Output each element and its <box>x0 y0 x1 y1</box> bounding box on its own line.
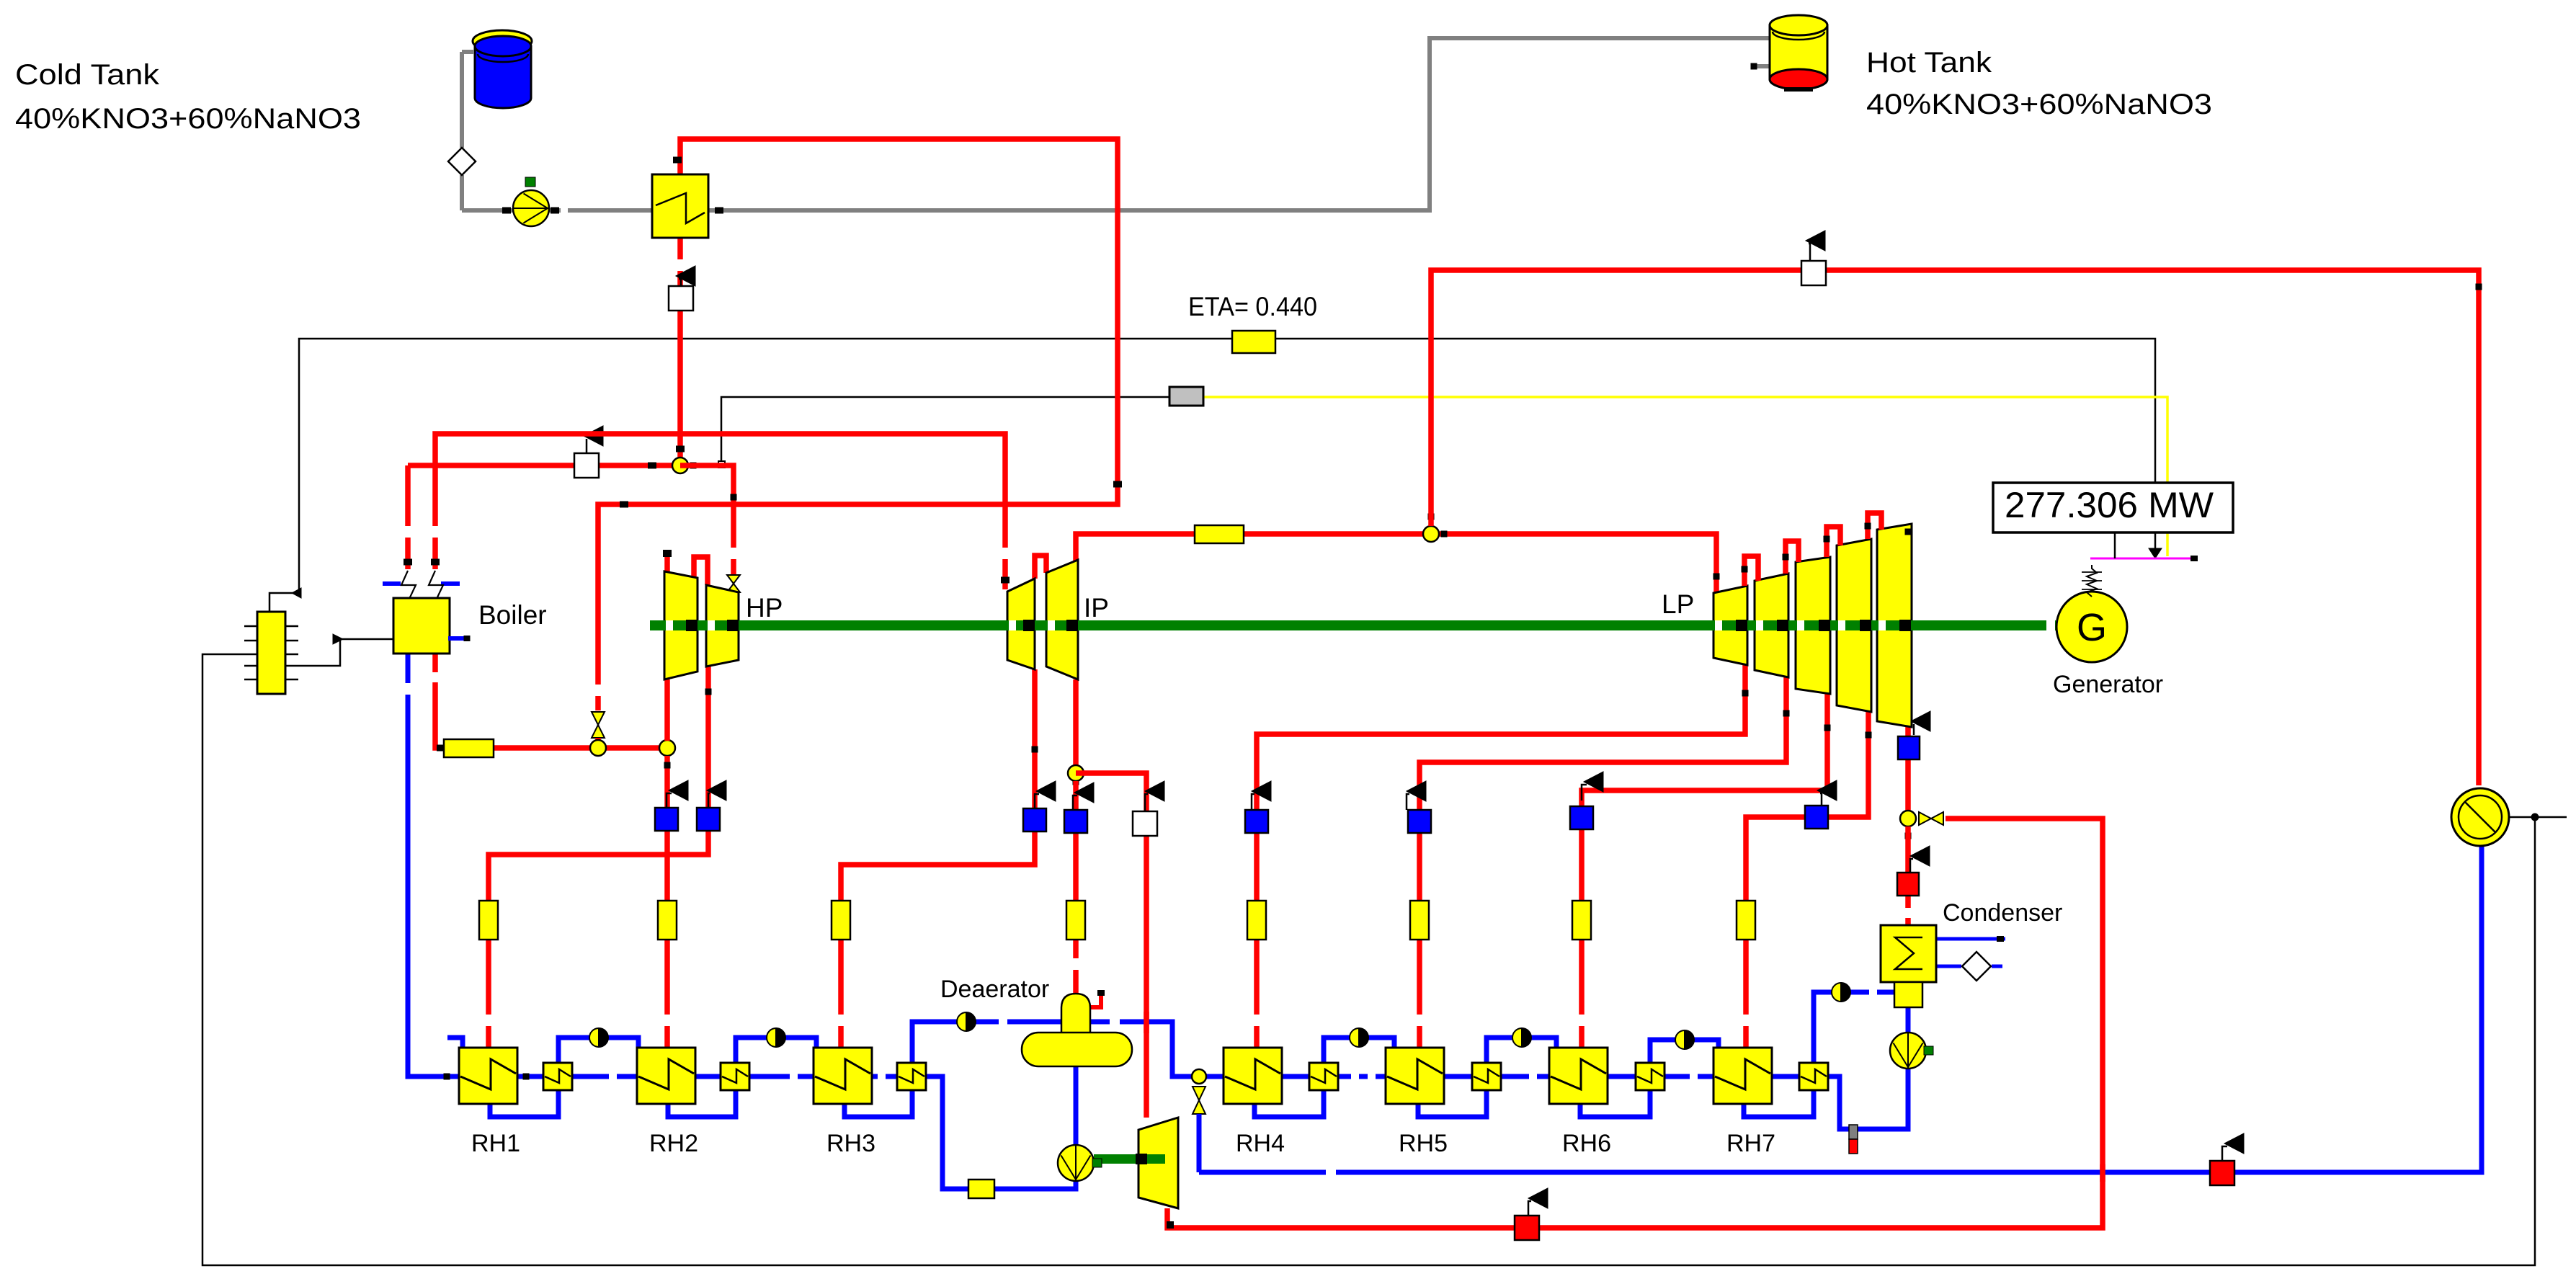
label: RH6 <box>1562 1130 1611 1157</box>
power meter text <box>2005 485 2214 525</box>
flag arrow RH6 extraction <box>1582 772 1603 801</box>
wire: boiler control signal (black) <box>298 634 393 666</box>
node N3 (HP exhaust junction) <box>659 740 675 756</box>
node N6 (condenser inlet node) <box>1900 811 1916 839</box>
turbine LP stage 3 <box>1796 557 1830 694</box>
label: hot salt composition <box>1866 89 2212 120</box>
measurement box on BFP suction <box>968 1180 994 1198</box>
wire: HP turbine section 1 exhaust stub <box>664 679 670 741</box>
valve V2 (HP turbine inlet valve) <box>727 575 740 592</box>
svg-text:IP: IP <box>1084 593 1109 623</box>
wire: efficiency signal line (black) <box>269 339 2162 611</box>
blue square on RH1 extraction <box>697 808 720 831</box>
wire: RH3 drain cooler loop <box>844 1090 912 1117</box>
diamond splitter on cold salt line <box>448 148 476 175</box>
cooling water sink (circle with slash) <box>2451 788 2509 846</box>
wire: magenta generator terminal line <box>2090 556 2198 561</box>
label: RH5 <box>1399 1130 1448 1157</box>
blue square on RH5 extraction <box>1408 810 1431 833</box>
wire: steam dump line to cooling sink <box>1431 270 2482 785</box>
wire: condensate RH4-RH7 row <box>1282 1074 1799 1079</box>
red square on BFPT exhaust line <box>1515 1216 1539 1240</box>
pump P1 (cold salt pump) <box>513 177 549 226</box>
measurement box on RH7 extraction <box>1737 901 1755 940</box>
generator G1 (circle) <box>2056 592 2127 662</box>
flag arrow RH4 extraction <box>1252 781 1271 810</box>
wire: IP exhaust extraction to node N4 <box>1073 679 1079 785</box>
label: Condenser <box>1943 899 2062 927</box>
wire: HP crossover elbow <box>694 557 708 585</box>
drain cooler DC4 <box>1309 1063 1338 1090</box>
svg-text:40%KNO3+60%NaNO3: 40%KNO3+60%NaNO3 <box>1866 89 2212 120</box>
drain pump P8 (RH5 forward) <box>1512 1028 1531 1047</box>
turbine HP section 1 <box>664 571 698 679</box>
wire: extraction to RH2 <box>664 756 671 1048</box>
flag arrow deaerator steam <box>1073 783 1094 810</box>
line dash gaps <box>404 207 2103 1231</box>
wire: IP exhaust to LP inlet (crossover) <box>1073 534 1720 592</box>
svg-text:HP: HP <box>746 593 783 623</box>
wire: LP crossover elbows <box>1742 513 1912 586</box>
wire: bypass to BFPT exhaust loop <box>1167 819 2103 1229</box>
measurement box on deaerator steam <box>1066 901 1085 940</box>
flag arrow RH7 extraction <box>1817 780 1837 806</box>
wire: bypass valve to node <box>595 738 601 744</box>
valve V1 (HP bypass valve on cold reheat) <box>592 712 605 738</box>
svg-text:LP: LP <box>1662 589 1694 619</box>
feedwater heater RH7 <box>1713 1048 1772 1104</box>
drain pump P7 (RH4 forward) <box>1350 1028 1368 1047</box>
label: ETA efficiency <box>1188 292 1317 321</box>
blue square on RH3 extraction <box>1023 808 1046 832</box>
feedwater heater RH3 <box>814 1048 872 1104</box>
node N5 (LP crossover tee) <box>1423 514 1448 543</box>
electric load component (tall yellow block) <box>244 612 298 694</box>
wire: RH6 drain cooler loop <box>1580 1040 1719 1117</box>
wire: IP extraction 1 to RH3 <box>841 669 1038 1048</box>
drain pump P4 (RH3 forward) <box>957 1012 976 1031</box>
wire: IP crossover elbow <box>1035 556 1046 579</box>
label: RH3 <box>826 1130 875 1157</box>
wire: feedwater to BFP suction loop <box>926 1076 1076 1189</box>
measurement box on LP crossover <box>1195 525 1244 543</box>
flag arrow on steam dump line <box>1806 231 1825 261</box>
node N1 (main steam splitter) <box>672 458 697 473</box>
svg-text:RH1: RH1 <box>471 1130 520 1157</box>
measurement box on RH4 extraction <box>1247 901 1266 940</box>
drain pump P10 (RH7 forward to hotwell) <box>1832 983 1850 1002</box>
white measurement square on main steam <box>669 286 693 311</box>
wire: main steam riser from salt steam generator (hot side loop) <box>598 139 1122 710</box>
measurement box on cold reheat <box>444 739 494 757</box>
wire: main steam to HP turbine inlet <box>680 465 737 574</box>
wire: main steam downcomer (steam generator to splitter node) <box>676 238 685 461</box>
wire: hot tank lower stub <box>1751 63 1770 70</box>
blue square on RH4 extraction <box>1245 810 1268 833</box>
white square on steam dump line <box>1801 261 1826 285</box>
wire: deaerator condensate inlet line <box>912 1022 1224 1076</box>
svg-text:Cold Tank: Cold Tank <box>15 59 160 91</box>
label: Hot Tank <box>1866 47 1992 79</box>
wire: generator power measurement loop (black rectangle) <box>202 654 2567 1265</box>
wire: yellow signal line <box>1203 397 2167 556</box>
wire: RH1 drain cooler loop <box>490 1038 638 1117</box>
wire: RH5 drain cooler loop <box>1418 1038 1556 1117</box>
wire: steam to feed pump turbine <box>1076 773 1146 1118</box>
svg-text:RH6: RH6 <box>1562 1130 1611 1157</box>
measurement box on RH2 extraction <box>658 901 677 940</box>
feedwater heater RH5 <box>1386 1048 1444 1104</box>
condenser (heat exchanger) <box>1881 925 1936 982</box>
svg-text:RH2: RH2 <box>649 1130 698 1157</box>
wire: condenser cooling stubs <box>1936 936 2005 966</box>
flag arrow LP exhaust <box>1911 711 1930 735</box>
flag arrow on BFPT exhaust line <box>1528 1188 1548 1216</box>
white square on BFPT steam <box>1133 811 1157 836</box>
generator letter <box>2077 606 2107 649</box>
measurement box on RH6 extraction <box>1572 901 1591 940</box>
wire: hotwell to condensate pump <box>1906 1007 1911 1035</box>
turbine HP section 2 <box>706 585 739 666</box>
blue square on RH7 extraction <box>1805 806 1828 829</box>
generator excitation spring <box>2082 565 2102 597</box>
wire: RH7 drain cooler loop <box>1744 992 1894 1117</box>
feedwater heater RH1 <box>459 1048 517 1104</box>
flag arrow above main steam square <box>676 266 695 286</box>
flag arrow RH3 extraction <box>1035 781 1056 808</box>
drain pump P9 (RH6 forward) <box>1675 1030 1694 1049</box>
wire: LP stage4 extraction to RH7 <box>1746 712 1872 1048</box>
flag arrow RH1 extraction <box>707 780 726 808</box>
hot tank (yellow cylinder, red bottom) <box>1770 15 1827 92</box>
svg-text:G: G <box>2077 606 2107 649</box>
label: Cold Tank <box>15 59 160 91</box>
wire: cold salt line pump to steam generator to hot tank <box>462 38 1770 214</box>
svg-text:RH4: RH4 <box>1236 1130 1285 1157</box>
svg-text:40%KNO3+60%NaNO3: 40%KNO3+60%NaNO3 <box>15 103 361 135</box>
wire: cold reheat line y1038 (boiler bottom east to HP exhaust) <box>435 654 667 752</box>
wire: deaerator pegging steam <box>1073 781 1079 994</box>
turbine LP stage 4 <box>1837 539 1871 712</box>
blue square on deaerator steam <box>1064 810 1087 833</box>
boiler (backup fossil boiler) <box>393 598 450 654</box>
svg-text:RH3: RH3 <box>826 1130 875 1157</box>
red square on circulating water <box>2210 1161 2234 1185</box>
blue square on RH6 extraction <box>1570 806 1593 829</box>
svg-text:Condenser: Condenser <box>1943 899 2062 927</box>
feedwater heater RH6 <box>1549 1048 1608 1104</box>
feed pump turbine (BFPT) <box>1138 1118 1178 1208</box>
label: RH4 <box>1236 1130 1285 1157</box>
blue square on RH2 extraction <box>655 808 678 831</box>
flag arrow RH2 extraction <box>667 780 688 808</box>
deaerator dome <box>1061 994 1090 1035</box>
wire: deaerator vent <box>1089 990 1105 1007</box>
heat exchanger HX1 (salt steam generator) <box>652 174 708 238</box>
svg-text:RH5: RH5 <box>1399 1130 1448 1157</box>
turbine LP stage 5 <box>1877 524 1912 727</box>
label: cold salt composition <box>15 103 361 135</box>
wire: condenser inlet <box>1905 826 1911 925</box>
label: RH2 <box>649 1130 698 1157</box>
svg-text:Boiler: Boiler <box>478 600 547 630</box>
boiler flue connectors (break symbols) <box>383 571 460 599</box>
label: Generator <box>2053 671 2163 698</box>
label: RH1 <box>471 1130 520 1157</box>
wire: HP mid extraction to RH1 <box>489 666 712 1048</box>
drain cooler DC6 <box>1636 1063 1664 1090</box>
diamond on condenser cooling outlet <box>1962 952 1991 981</box>
label: RH7 <box>1726 1130 1775 1157</box>
svg-text:Hot Tank: Hot Tank <box>1866 47 1992 79</box>
wire: HP inlet stub with cap <box>663 550 672 572</box>
wire: LP stage3 extraction to RH6 <box>1582 694 1831 1048</box>
svg-text:277.306 MW: 277.306 MW <box>2005 485 2214 525</box>
boiler right stub <box>448 636 471 641</box>
label: Boiler <box>478 600 547 630</box>
measurement box on RH3 extraction <box>832 901 850 940</box>
svg-text:ETA= 0.440: ETA= 0.440 <box>1188 292 1317 321</box>
drain cooler DC5 <box>1472 1063 1501 1090</box>
wire: feedwater RH2-RH3 row <box>695 1074 897 1079</box>
drain pump P6 (RH2 forward) <box>767 1028 785 1047</box>
wire: condensate pump to RH7 row <box>1828 1067 1908 1129</box>
wire: RH4 drain cooler loop <box>1254 1038 1394 1117</box>
cold tank (blue cylinder) <box>473 30 532 108</box>
pump P3 (condensate pump) <box>1890 1033 1933 1069</box>
wire: LP stage2 extraction to RH5 <box>1420 677 1790 1048</box>
flag arrow on circulating water <box>2222 1133 2244 1161</box>
node N7 (condensate branch) <box>1192 1069 1206 1084</box>
drain cooler DC1 <box>543 1063 572 1090</box>
wire: feedwater boiler downcomer <box>408 654 459 1080</box>
feedwater heater RH2 <box>637 1048 695 1104</box>
turbine IP section 1 <box>1007 579 1035 669</box>
flag arrow RH5 extraction <box>1407 781 1426 810</box>
flag arrow BFPT steam <box>1145 781 1164 811</box>
drain cooler DC2 <box>721 1063 749 1090</box>
red square on condenser inlet <box>1897 873 1919 896</box>
condenser hotwell <box>1894 982 1922 1007</box>
svg-text:Deaerator: Deaerator <box>940 976 1049 1003</box>
level element on condensate jog <box>1849 1125 1858 1154</box>
flag arrow condensate measurement <box>1910 846 1930 873</box>
wire: main steam to boiler header (west branch) <box>404 463 680 570</box>
efficiency meter box (ETA) <box>1232 331 1275 353</box>
label: HP turbine <box>746 593 783 623</box>
wire: RH2 drain cooler loop <box>668 1038 816 1117</box>
drain cooler DC3 <box>897 1063 926 1090</box>
measurement box on RH5 extraction <box>1410 901 1429 940</box>
svg-text:RH7: RH7 <box>1726 1130 1775 1157</box>
blue square on LP exhaust <box>1898 736 1920 759</box>
deaerator vessel <box>1022 1033 1132 1066</box>
wire: feedwater RH1 row <box>517 1074 637 1080</box>
feedwater heater RH4 <box>1224 1048 1282 1104</box>
node N2 (bypass junction) <box>590 740 606 756</box>
wire: cold salt line from cold tank <box>462 52 473 210</box>
white measurement square on boiler steam line <box>574 453 599 478</box>
node N4 (IP exhaust splitter) <box>1068 765 1084 781</box>
wire: feed pump turbine shaft (green) <box>1094 1154 1165 1164</box>
turbine IP section 2 <box>1046 560 1078 679</box>
wire: LP exhaust to condenser <box>1905 727 1911 811</box>
wire: hot reheat line (boiler to IP turbine) <box>431 434 1010 589</box>
pump P2 (boiler feed pump) <box>1058 1145 1102 1181</box>
valve V3 (turbine bypass bowtie valve) <box>1919 812 1943 825</box>
power meter box 277.306 MW <box>1993 483 2233 532</box>
drain cooler DC7 <box>1799 1063 1828 1090</box>
wire: turbine shaft (green) <box>650 620 2056 631</box>
valve V4 (condensate branch valve) <box>1193 1087 1205 1172</box>
wire: circulating water return line <box>1199 847 2482 1172</box>
flag arrow above boiler steam square <box>584 426 603 453</box>
wire: LP stage1 extraction to RH4 <box>1257 665 1749 1048</box>
turbine LP stage 1 <box>1713 586 1747 665</box>
label: IP turbine <box>1084 593 1109 623</box>
gray converter box on signal line <box>1169 387 1203 406</box>
label: LP turbine <box>1662 589 1694 619</box>
wire: MW-box drop line (black) <box>2114 532 2116 558</box>
wire: RH1 top stub <box>447 1038 463 1048</box>
drain pump P5 (RH1 forward) <box>589 1028 608 1047</box>
wire: deaerator outlet to BFP <box>1074 1066 1079 1146</box>
measurement box on RH1 extraction <box>479 901 498 940</box>
label: Deaerator <box>940 976 1049 1003</box>
wire: turbine-speed signal to gray box (black) <box>718 397 1169 468</box>
turbine LP stage 2 <box>1755 574 1788 677</box>
svg-text:Generator: Generator <box>2053 671 2163 698</box>
